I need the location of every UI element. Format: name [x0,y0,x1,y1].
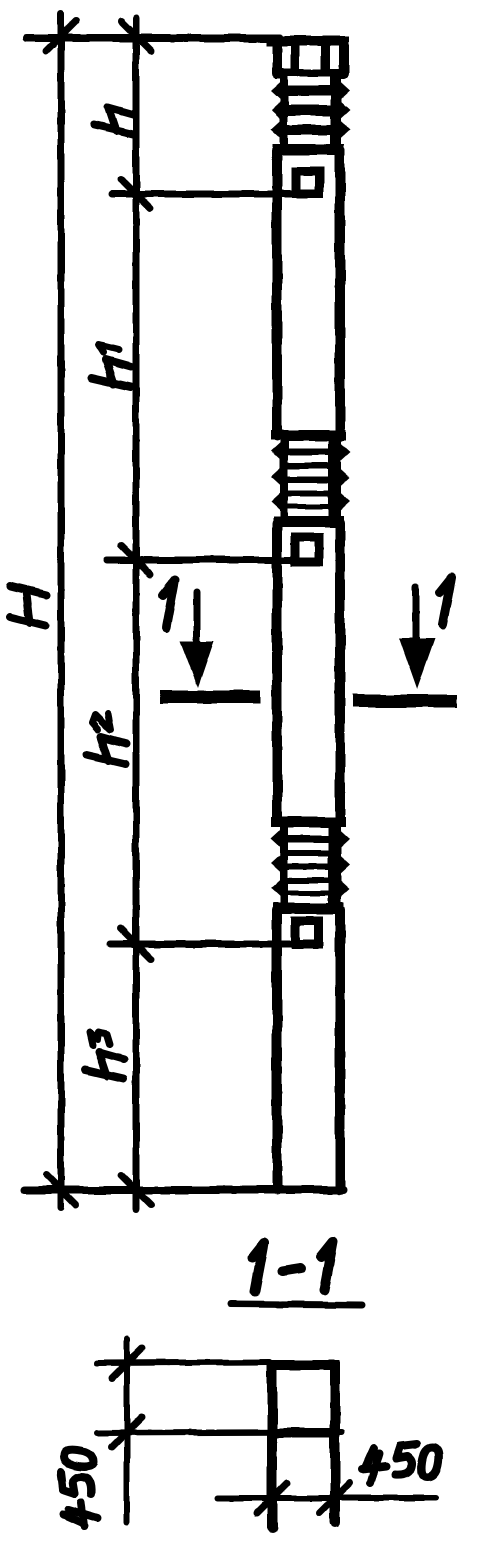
joint 3 slot 5 [288,884,328,892]
bottom line / pile base [24,1186,343,1194]
tick at H top [46,21,76,51]
joint 2 right tooth 2 [338,467,350,489]
head bellows lower cap [273,144,344,155]
dimension line h vertical [133,18,140,1210]
head bellows body [280,74,341,149]
boundary extension line h2/h3 [110,941,292,948]
head bellows slot 1 [288,77,330,86]
pile segment 2 left edge [272,523,282,822]
tick section dim bottom [112,1417,142,1447]
joint 3 slot 3 [288,856,328,864]
section marker right digit 1 [440,577,452,625]
joint 2 upper cap [271,430,346,440]
label 450 vertical [61,1450,98,1526]
joint 2 slot 3 [288,469,328,477]
tick at h top [121,21,151,51]
tick at h bottom [121,1175,151,1205]
tick h2/h3 [121,929,151,959]
section marker right arrow head [399,638,435,689]
pile head chamfer line left [291,45,300,74]
section marker left arrow head [180,641,214,688]
head bellows slot 3 [288,116,330,125]
tick section bottom left [257,1483,287,1513]
section top extension line [97,1362,270,1363]
boundary extension line h1/h2 [107,557,291,564]
pile head chamfer line right [321,45,330,74]
section title underline [231,1304,362,1305]
tick section bottom right [320,1483,350,1513]
joint 3 slot 6 [288,896,328,904]
label h [94,107,133,134]
label h1 [92,345,131,387]
joint 2 right tooth 1 [338,441,350,463]
joint 2 slot 5 [288,497,328,505]
section vertical dimension line [124,1339,130,1523]
joint 3 upper cap [271,817,346,827]
joint 3 slot 1 [288,828,328,836]
pile head collar [275,69,345,79]
tick section dim top [112,1348,142,1378]
section title dash [282,1268,301,1271]
joint 3 right tooth 3 [338,878,350,900]
section title 1-1 first digit [252,1243,264,1291]
pile segment 3 left edge [272,910,282,1190]
label H (total height) [10,586,46,626]
joint 2 slot 1 [288,441,328,449]
lifting hole square 1 [297,171,320,194]
head bellows slot 4 [288,135,330,144]
section square outline [272,1365,335,1433]
joint 2 lower cap [273,516,344,527]
lifting hole square 3 [296,921,319,944]
head bellows right tooth 2 [338,99,350,121]
joint 2 slot 6 [288,509,328,517]
dimension line H vertical [58,14,65,1207]
joint 2 corrugated body [280,439,341,517]
section extension right vertical below square [330,1438,340,1522]
section marker left digit 1 [163,580,175,628]
tick at H bottom [46,1175,76,1205]
pile head top bar [266,36,349,46]
top dimension line [27,34,280,42]
pile segment 3 right edge [335,910,345,1190]
pile head left edge [272,41,282,74]
section middle extension line [97,1432,342,1433]
label h2 [87,714,126,764]
joint 2 left tooth 3 [271,491,283,513]
head bellows left tooth 1 [271,80,283,102]
joint 3 right tooth 1 [338,828,350,850]
joint 3 left tooth 3 [271,878,283,900]
joint 2 right tooth 3 [338,491,350,513]
boundary extension line h/h1 [112,191,292,198]
joint 2 slot 4 [288,483,328,491]
joint 3 slot 4 [288,870,328,878]
joint 3 left tooth 1 [271,827,283,849]
section bottom dimension line [218,1495,436,1501]
section marker left cut bar [166,691,254,704]
label h3 [85,1032,124,1079]
pile segment 1 left edge [272,150,282,436]
head bellows right tooth 3 [338,119,350,141]
tick h1/h2 [121,545,151,575]
joint 2 slot 2 [288,455,328,463]
head bellows left tooth 3 [271,119,283,141]
head bellows slot 2 [288,96,330,105]
tick h/h1 [121,179,151,209]
head bellows left tooth 2 [271,99,283,121]
pile segment 1 right edge [335,150,345,436]
section marker left arrow shaft [194,592,201,650]
head bellows right tooth 1 [338,80,350,102]
joint 3 slot 2 [288,842,328,850]
section title 1-1 second digit [321,1242,333,1290]
pile head right edge [339,41,349,74]
joint 3 left tooth 2 [271,853,283,875]
section marker right arrow shaft [413,587,420,647]
section marker right cut bar [359,695,451,708]
lifting hole square 2 [295,537,319,562]
section extension left vertical below square [267,1438,277,1528]
joint 3 right tooth 2 [338,854,350,876]
joint 3 corrugated body [280,826,341,904]
joint 2 left tooth 1 [271,440,283,462]
label 450 horizontal [362,1448,386,1483]
joint 2 left tooth 2 [271,466,283,488]
joint 3 lower cap [273,903,344,914]
pile segment 2 right edge [335,523,345,822]
